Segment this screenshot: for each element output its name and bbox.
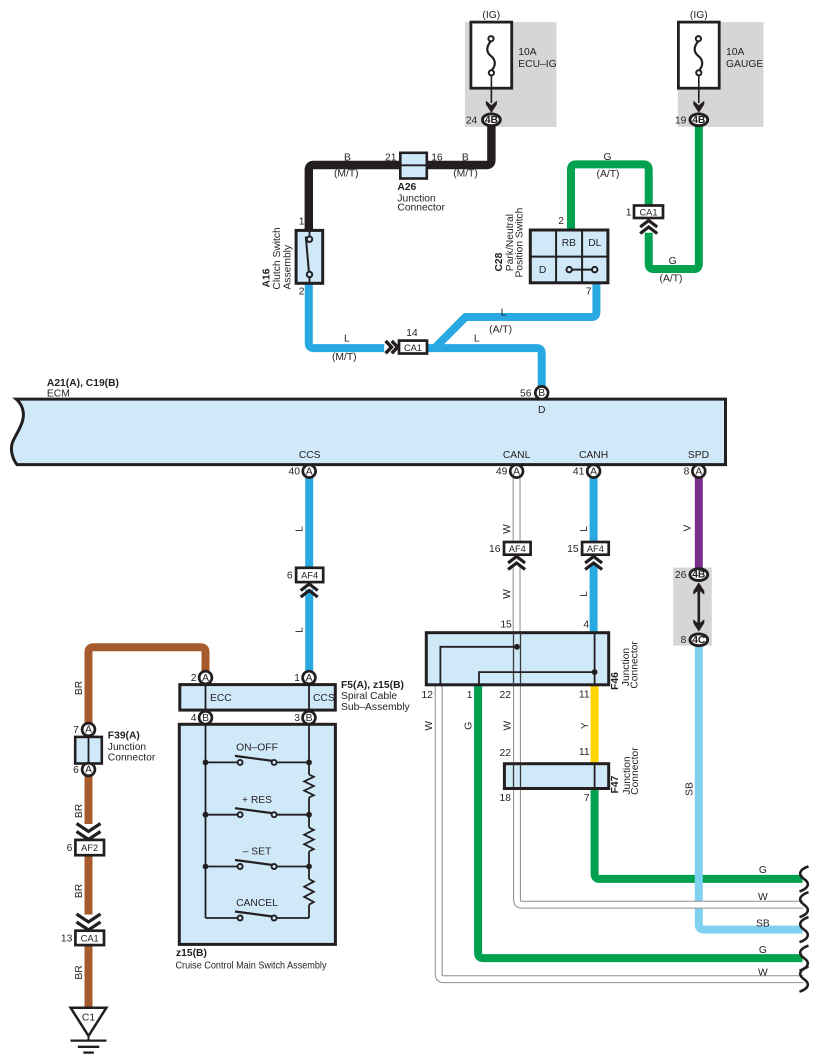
svg-text:W: W [503,721,514,731]
svg-text:Connector: Connector [397,203,445,214]
svg-text:1: 1 [299,217,305,228]
svg-text:AF4: AF4 [587,544,604,554]
svg-text:F5(A), z15(B): F5(A), z15(B) [341,680,404,691]
svg-text:D: D [538,405,545,416]
svg-text:6: 6 [73,765,79,776]
svg-text:CCS: CCS [299,450,321,461]
svg-text:RB: RB [562,238,576,249]
svg-text:BR: BR [74,884,85,898]
svg-text:2: 2 [558,216,564,227]
svg-text:ON–OFF: ON–OFF [236,743,278,754]
svg-text:A: A [306,466,313,477]
svg-text:AF4: AF4 [301,570,318,580]
svg-text:BR: BR [74,681,85,695]
svg-text:F47: F47 [610,775,621,793]
svg-text:(A/T): (A/T) [489,324,512,335]
svg-text:7: 7 [584,793,590,804]
svg-text:11: 11 [579,689,590,700]
svg-text:A: A [202,673,209,684]
svg-text:Junction: Junction [108,742,147,753]
svg-text:CA1: CA1 [404,343,422,353]
svg-text:56: 56 [520,388,532,399]
svg-text:CANL: CANL [503,450,531,461]
svg-text:CA1: CA1 [81,934,99,944]
svg-text:G: G [669,256,677,267]
svg-text:A21(A), C19(B): A21(A), C19(B) [47,378,119,389]
svg-text:3: 3 [294,713,300,724]
svg-text:B: B [202,713,209,724]
svg-text:15: 15 [500,620,512,631]
svg-text:L: L [474,334,480,345]
svg-text:ECU–IG: ECU–IG [518,59,556,70]
svg-text:8: 8 [681,635,687,646]
svg-text:Position Switch: Position Switch [514,207,525,277]
svg-text:40: 40 [289,467,301,478]
svg-text:G: G [464,722,475,730]
svg-text:4: 4 [583,620,589,631]
svg-text:CANCEL: CANCEL [236,898,278,909]
svg-text:16: 16 [489,544,501,555]
svg-text:A: A [590,466,597,477]
svg-text:CANH: CANH [579,450,608,461]
svg-text:Sub–Assembly: Sub–Assembly [341,702,411,713]
svg-text:1: 1 [467,690,473,701]
svg-text:2: 2 [191,673,197,684]
svg-text:21: 21 [385,152,397,163]
svg-text:(A/T): (A/T) [660,274,683,285]
svg-text:SPD: SPD [688,450,709,461]
svg-text:GAUGE: GAUGE [726,59,763,70]
svg-text:Connector: Connector [629,641,640,689]
svg-text:6: 6 [287,570,293,581]
svg-text:18: 18 [500,793,512,804]
svg-text:SB: SB [684,782,695,796]
svg-text:1: 1 [626,207,632,218]
svg-text:14: 14 [406,328,418,339]
svg-text:19: 19 [675,115,687,126]
svg-text:L: L [344,334,350,345]
svg-text:G: G [759,865,767,876]
svg-text:F46: F46 [610,672,621,690]
svg-text:Cruise Control Main Switch Ass: Cruise Control Main Switch Assembly [176,960,328,971]
svg-text:B: B [344,152,351,163]
svg-text:Assembly: Assembly [283,244,294,289]
svg-text:Connector: Connector [630,747,641,795]
svg-text:(IG): (IG) [482,10,500,21]
svg-text:A: A [513,466,520,477]
svg-text:z15(B): z15(B) [176,948,207,959]
svg-text:22: 22 [500,748,512,759]
svg-text:Y: Y [580,722,591,729]
svg-text:A: A [85,765,92,776]
svg-text:L: L [501,307,507,318]
svg-text:A: A [695,466,702,477]
svg-text:V: V [682,524,693,531]
svg-text:B: B [462,152,469,163]
svg-text:7: 7 [73,725,79,736]
svg-text:A: A [85,725,92,736]
svg-text:AF4: AF4 [509,544,526,554]
svg-text:ECM: ECM [47,389,70,400]
svg-text:4: 4 [191,713,197,724]
svg-text:Spiral Cable: Spiral Cable [341,691,397,702]
svg-text:49: 49 [496,467,508,478]
svg-text:Clutch Switch: Clutch Switch [272,227,283,290]
svg-text:D: D [539,265,546,276]
svg-text:SB: SB [756,918,770,929]
svg-text:L: L [579,591,590,597]
svg-text:CCS: CCS [313,693,335,704]
svg-text:L: L [579,526,590,532]
svg-text:F39(A): F39(A) [108,731,140,742]
svg-text:W: W [424,721,435,731]
svg-text:A16: A16 [262,268,273,287]
svg-text:6: 6 [67,843,73,854]
svg-text:41: 41 [573,467,585,478]
svg-text:10A: 10A [726,47,744,58]
svg-text:W: W [758,892,768,903]
svg-text:BR: BR [74,965,85,979]
svg-text:(IG): (IG) [690,10,708,21]
svg-text:2: 2 [299,287,305,298]
svg-text:C28: C28 [494,252,505,271]
svg-text:7: 7 [586,286,592,297]
svg-text:+ RES: + RES [242,795,272,806]
svg-text:24: 24 [466,115,478,126]
svg-text:C1: C1 [82,1013,95,1024]
svg-text:4C: 4C [692,635,706,646]
svg-text:16: 16 [431,152,443,163]
svg-text:11: 11 [579,747,590,758]
svg-text:10A: 10A [518,47,536,58]
svg-text:– SET: – SET [243,847,272,858]
svg-text:(A/T): (A/T) [597,169,620,180]
svg-text:Connector: Connector [108,753,156,764]
svg-text:12: 12 [422,690,434,701]
svg-text:G: G [603,152,611,163]
svg-text:(M/T): (M/T) [332,352,357,363]
svg-text:BR: BR [74,804,85,818]
svg-text:L: L [295,526,306,532]
svg-text:W: W [502,524,513,534]
svg-text:L: L [295,627,306,633]
svg-text:26: 26 [675,570,687,581]
svg-text:A26: A26 [397,182,416,193]
svg-text:15: 15 [567,544,579,555]
svg-text:B: B [538,388,545,399]
svg-text:(M/T): (M/T) [334,168,359,179]
svg-text:A: A [306,673,313,684]
svg-text:DL: DL [588,238,601,249]
svg-text:ECC: ECC [210,693,232,704]
svg-text:4B: 4B [692,115,705,126]
svg-text:B: B [306,713,313,724]
svg-text:W: W [502,589,513,599]
svg-text:W: W [758,967,768,978]
svg-text:G: G [759,945,767,956]
svg-text:8: 8 [684,467,690,478]
svg-text:4B: 4B [485,115,498,126]
svg-text:22: 22 [500,690,512,701]
svg-text:(M/T): (M/T) [453,168,478,179]
svg-text:4B: 4B [692,570,705,581]
svg-text:AF2: AF2 [81,843,98,853]
svg-text:13: 13 [61,934,73,945]
svg-text:CA1: CA1 [639,207,657,217]
svg-text:1: 1 [294,673,300,684]
